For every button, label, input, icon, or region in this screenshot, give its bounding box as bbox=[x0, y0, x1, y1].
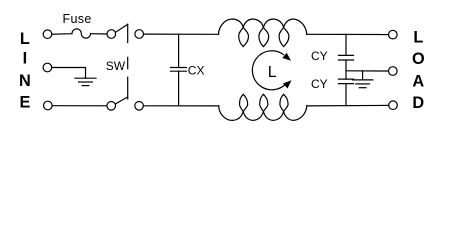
switch SW pole A contact left bbox=[107, 30, 116, 39]
wire bbox=[52, 33, 72, 36]
terminal line-bottom bbox=[44, 101, 53, 110]
rotation arrowhead top bbox=[282, 53, 291, 61]
wire bbox=[144, 33, 219, 35]
svg-text:A: A bbox=[412, 72, 424, 90]
svg-text:O: O bbox=[412, 50, 425, 68]
wire bbox=[307, 104, 389, 107]
svg-text:CX: CX bbox=[188, 64, 205, 78]
ground right stub bbox=[362, 71, 364, 80]
rotation arrowhead bottom bbox=[283, 80, 292, 88]
svg-text:E: E bbox=[19, 93, 30, 111]
svg-text:SW: SW bbox=[106, 59, 126, 73]
terminal load-bottom bbox=[389, 101, 398, 110]
switch SW linkage dash bbox=[127, 57, 129, 68]
inductor L winding top bbox=[219, 19, 307, 47]
switch SW pole B contact right bbox=[135, 102, 144, 111]
svg-text:L: L bbox=[268, 64, 277, 81]
rotation arrow arc bbox=[252, 51, 286, 90]
capacitor CY bottom plates bbox=[339, 78, 354, 80]
node LOAD label bbox=[412, 29, 425, 112]
terminal line-mid bbox=[43, 63, 52, 72]
svg-text:L: L bbox=[20, 30, 30, 48]
svg-text:CY: CY bbox=[311, 77, 328, 91]
wire bbox=[91, 33, 107, 35]
svg-text:CY: CY bbox=[311, 49, 328, 63]
wire bbox=[52, 105, 107, 107]
switch SW pole B blade bbox=[116, 97, 128, 104]
svg-text:I: I bbox=[23, 50, 28, 68]
capacitor CX plates bbox=[171, 67, 187, 69]
svg-text:N: N bbox=[19, 72, 31, 90]
switch SW pole A blade bbox=[116, 24, 128, 32]
ground left bbox=[75, 77, 96, 79]
capacitor CY top plates bbox=[339, 54, 354, 56]
svg-text:L: L bbox=[413, 29, 423, 47]
switch SW pole B contact left bbox=[107, 102, 116, 111]
svg-text:Fuse: Fuse bbox=[63, 12, 92, 26]
capacitor CX lead top bbox=[178, 34, 180, 67]
node LINE label bbox=[19, 30, 31, 111]
fuse F1 bbox=[72, 29, 91, 38]
wire bbox=[307, 33, 389, 35]
capacitor CY bottom lead bbox=[345, 84, 347, 106]
wire bbox=[143, 105, 218, 107]
wire node between CY caps bbox=[345, 60, 347, 79]
switch SW pole B bar bbox=[127, 77, 129, 99]
switch SW pole A contact right bbox=[135, 30, 144, 39]
terminal load-mid bbox=[389, 67, 398, 76]
switch SW pole A bar bbox=[127, 24, 129, 42]
terminal load-top bbox=[389, 30, 398, 39]
wire mid node to load bbox=[346, 70, 388, 72]
capacitor CX lead bottom bbox=[178, 71, 180, 106]
terminal line-top bbox=[43, 30, 52, 39]
capacitor CY top lead bbox=[345, 34, 347, 55]
inductor L winding bottom bbox=[219, 94, 307, 120]
wire bbox=[52, 68, 86, 79]
ground right bbox=[353, 79, 373, 81]
svg-text:D: D bbox=[412, 94, 424, 112]
